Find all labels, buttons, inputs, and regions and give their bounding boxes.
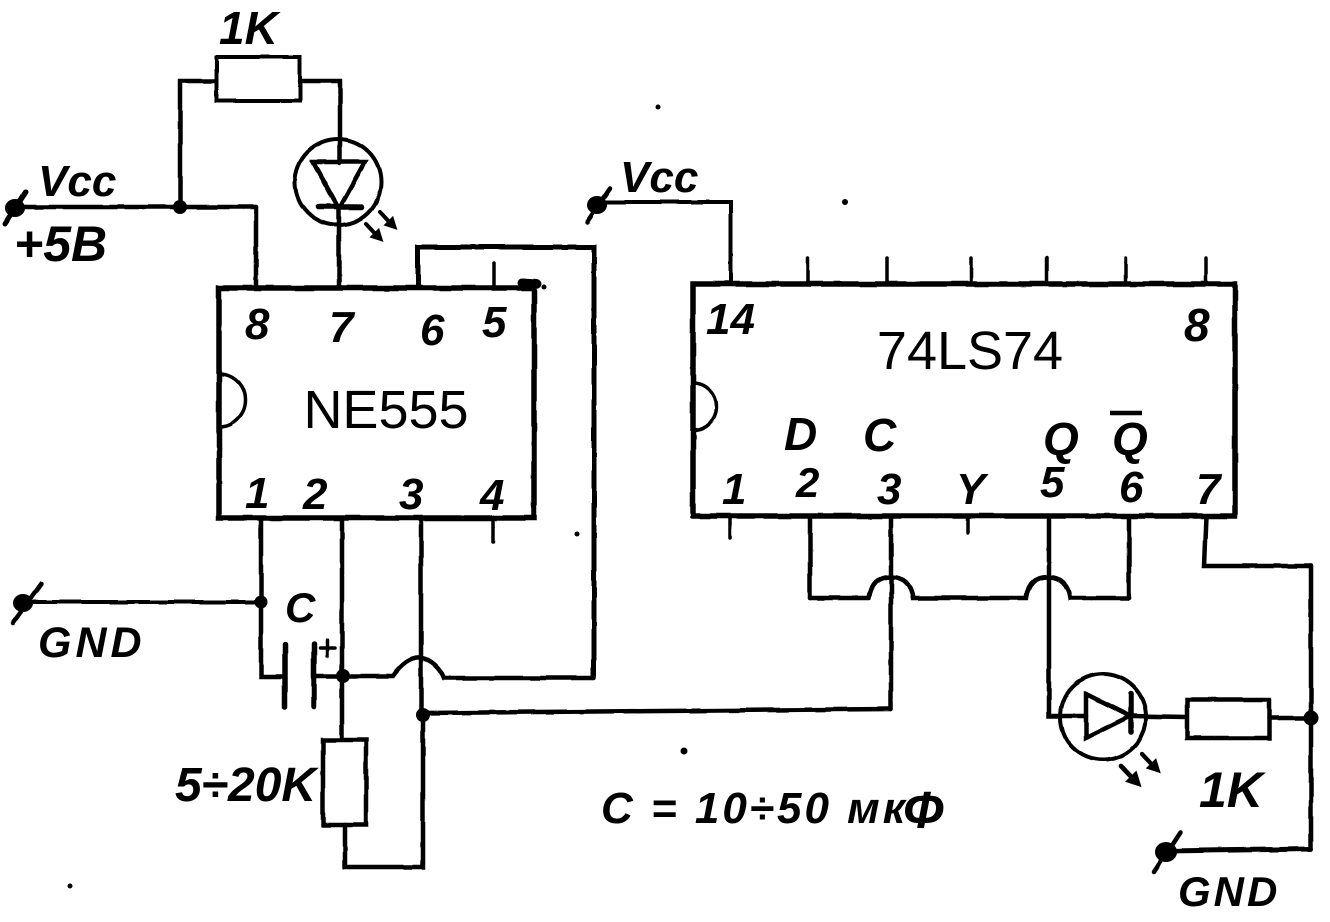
svg-text:Y: Y <box>956 465 989 514</box>
svg-text:6: 6 <box>1119 463 1144 512</box>
svg-text:2: 2 <box>795 459 819 506</box>
svg-text:5: 5 <box>1040 458 1065 507</box>
svg-text:7: 7 <box>1196 465 1223 514</box>
svg-text:3: 3 <box>399 470 423 519</box>
svg-text:C: C <box>285 584 316 631</box>
svg-text:GND: GND <box>1178 868 1280 915</box>
svg-text:Vcc: Vcc <box>620 153 698 202</box>
svg-text:3: 3 <box>877 465 901 514</box>
svg-text:C: C <box>863 409 897 461</box>
svg-text:1: 1 <box>245 469 269 518</box>
svg-text:5÷20K: 5÷20K <box>175 759 319 812</box>
svg-text:D: D <box>784 408 817 460</box>
svg-text:8: 8 <box>1184 299 1210 351</box>
svg-text:1K: 1K <box>1199 762 1267 818</box>
svg-text:74LS74: 74LS74 <box>877 321 1063 381</box>
svg-text:6: 6 <box>420 306 445 355</box>
svg-text:7: 7 <box>329 303 356 352</box>
svg-text:Ф: Ф <box>903 782 944 840</box>
svg-text:1: 1 <box>722 465 746 514</box>
svg-text:5: 5 <box>482 298 507 347</box>
svg-text:4: 4 <box>479 471 504 520</box>
svg-text:GND: GND <box>38 619 146 667</box>
svg-text:+5B: +5B <box>14 216 107 272</box>
svg-text:8: 8 <box>245 300 270 349</box>
svg-text:C = 10÷50 мк: C = 10÷50 мк <box>601 784 908 833</box>
svg-text:14: 14 <box>706 295 755 344</box>
svg-text:1K: 1K <box>219 2 281 54</box>
svg-text:2: 2 <box>302 470 328 519</box>
svg-text:Q: Q <box>1112 413 1148 465</box>
svg-text:Vcc: Vcc <box>38 157 116 206</box>
svg-text:NE555: NE555 <box>303 380 468 440</box>
